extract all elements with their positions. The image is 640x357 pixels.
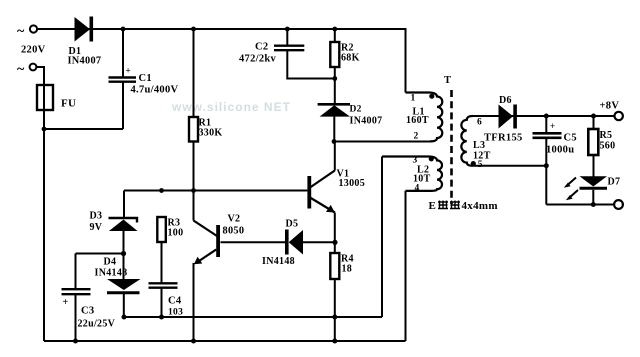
wire rail1 xyxy=(124,316,382,318)
node junction R1 bottom xyxy=(191,188,196,193)
node junction D2 bottom xyxy=(332,139,337,144)
svg-text:68K: 68K xyxy=(341,53,360,64)
svg-text:R5: R5 xyxy=(600,130,613,141)
svg-text:V2: V2 xyxy=(228,214,241,225)
svg-text:+: + xyxy=(63,297,69,308)
transistor V2 xyxy=(193,191,195,221)
capacitor C3 xyxy=(76,253,124,255)
svg-text:~: ~ xyxy=(17,62,25,77)
diode D2 xyxy=(318,103,350,106)
node junction C4 bottom xyxy=(159,315,164,320)
svg-text:IN4148: IN4148 xyxy=(95,268,128,279)
node junction C5 top xyxy=(544,114,549,119)
svg-text:13005: 13005 xyxy=(339,178,366,189)
transformer core dashes xyxy=(450,90,453,204)
svg-text:6: 6 xyxy=(477,118,482,128)
svg-text:160T: 160T xyxy=(406,115,429,126)
svg-text:4.7u/400V: 4.7u/400V xyxy=(131,85,179,96)
capacitor C4 xyxy=(149,282,178,284)
svg-text:D3: D3 xyxy=(90,211,103,222)
svg-text:+8V: +8V xyxy=(600,101,620,112)
wire secondary bottom xyxy=(472,165,547,167)
node junction R2 top xyxy=(332,27,337,32)
svg-text:9V: 9V xyxy=(90,222,103,233)
svg-text:22u/25V: 22u/25V xyxy=(78,319,116,330)
node junction R3 top xyxy=(159,188,164,193)
LED arrows xyxy=(568,178,577,186)
svg-text:FU: FU xyxy=(61,98,76,110)
zener D3 xyxy=(123,191,125,219)
svg-text:4x4mm: 4x4mm xyxy=(462,200,498,212)
diode D4 xyxy=(123,254,125,280)
node junction R4 line rail1 xyxy=(332,315,337,320)
inductor L1 primary xyxy=(406,93,443,142)
node junction C5/L3 bottom xyxy=(544,163,549,168)
diode D6 xyxy=(499,105,514,129)
capacitor C5 xyxy=(545,116,547,133)
LED D7 xyxy=(580,176,608,186)
svg-text:D6: D6 xyxy=(499,95,512,106)
svg-text:220V: 220V xyxy=(21,45,46,56)
svg-text:~: ~ xyxy=(17,24,25,39)
svg-text:C3: C3 xyxy=(81,306,94,317)
svg-text:IN4007: IN4007 xyxy=(350,116,383,127)
svg-text:D2: D2 xyxy=(350,105,362,115)
wire secondary top xyxy=(472,115,616,117)
svg-text:D7: D7 xyxy=(608,177,621,188)
svg-text:2: 2 xyxy=(414,132,419,142)
inductor L3 secondary xyxy=(461,116,472,166)
diode D5 xyxy=(303,241,335,243)
resistor R2 xyxy=(334,29,336,42)
wire base rail of V1 xyxy=(124,190,307,192)
terminal AC line 1 xyxy=(30,25,37,32)
svg-text:+: + xyxy=(126,66,131,76)
svg-text:560: 560 xyxy=(600,141,616,152)
node junction C1 top xyxy=(121,27,126,32)
node junction V2 emitter rail2 xyxy=(191,339,196,344)
node junction D5/R4 xyxy=(332,240,337,245)
wire output bottom xyxy=(546,204,614,206)
wire rail2 right riser xyxy=(405,191,407,341)
wire rail2 ground xyxy=(44,340,406,342)
svg-text:IN4148: IN4148 xyxy=(262,256,295,267)
svg-text:D5: D5 xyxy=(286,219,299,230)
svg-text:4: 4 xyxy=(415,184,420,194)
resistor R5 xyxy=(593,116,595,129)
node junction R1 top xyxy=(191,27,196,32)
capacitor C1 xyxy=(122,29,124,77)
wire right drop to L1 xyxy=(405,28,407,93)
inductor L2 feedback xyxy=(382,157,442,191)
node junction C3 bottom xyxy=(73,339,78,344)
node junction D3/D4/C3 xyxy=(121,251,126,256)
terminal AC line 2 xyxy=(30,64,37,71)
svg-text:472/2kv: 472/2kv xyxy=(239,54,277,65)
fuse FU xyxy=(37,85,53,110)
resistor R1 xyxy=(193,29,195,117)
terminal output +8V xyxy=(615,112,623,120)
svg-text:T: T xyxy=(444,75,451,86)
svg-text:1: 1 xyxy=(411,94,416,104)
svg-text:www.silicone NET: www.silicone NET xyxy=(171,100,291,114)
wire from terminal 2 xyxy=(37,67,45,341)
wire rail1 right riser xyxy=(381,157,383,318)
node junction R2 bottom / C2 xyxy=(332,76,337,81)
wire C1 bottom to fuse column xyxy=(44,128,123,130)
wire top rail xyxy=(38,28,406,30)
node junction C2 top xyxy=(285,27,290,32)
node junction R5 top xyxy=(591,114,596,119)
svg-text:E: E xyxy=(429,200,437,212)
diode D1 xyxy=(75,17,91,42)
capacitor C2 xyxy=(286,29,288,45)
svg-text:C1: C1 xyxy=(139,73,152,84)
resistor R4 xyxy=(330,253,339,279)
svg-text:C5: C5 xyxy=(564,133,577,144)
svg-text:C4: C4 xyxy=(168,296,182,307)
svg-text:8050: 8050 xyxy=(223,226,245,237)
svg-text:18: 18 xyxy=(342,264,353,275)
transistor V1 xyxy=(334,142,336,171)
svg-text:330K: 330K xyxy=(199,128,223,139)
svg-text:TFR155: TFR155 xyxy=(484,133,523,144)
node junction R4 rail2 xyxy=(332,339,337,344)
svg-text:D4: D4 xyxy=(104,257,117,268)
svg-text:+: + xyxy=(550,121,555,131)
svg-text:IN4007: IN4007 xyxy=(68,56,102,67)
node junction D4 bottom rail1 xyxy=(122,315,127,320)
svg-text:1000u: 1000u xyxy=(546,145,574,156)
node junction fuse/C1 xyxy=(42,127,47,132)
wire to L1 pin2 xyxy=(334,141,431,143)
resistor R3 xyxy=(157,217,166,242)
svg-text:C2: C2 xyxy=(255,42,268,53)
svg-text:100: 100 xyxy=(168,228,184,239)
terminal output minus xyxy=(614,200,623,209)
node junction D7 bottom xyxy=(591,202,596,207)
